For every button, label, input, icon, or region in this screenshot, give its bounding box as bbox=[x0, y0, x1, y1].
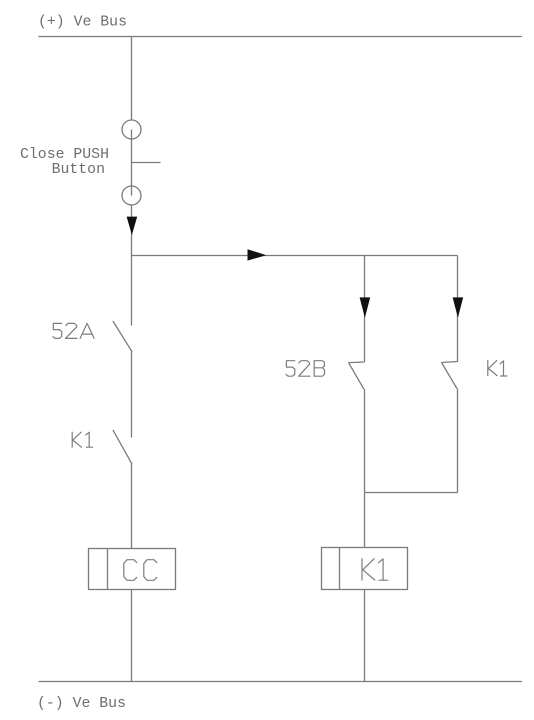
contact 52B tick bbox=[349, 361, 365, 364]
coil K1 box bbox=[322, 548, 408, 590]
wire between push button circles bbox=[131, 130, 133, 196]
wire from (+) bus down to push button bbox=[131, 37, 133, 121]
contact K1 right tick bbox=[442, 362, 458, 363]
label Close PUSH Button bbox=[20, 147, 109, 178]
wire 52B contact down through join to K1 coil bbox=[364, 389, 366, 548]
contact 52B blade bbox=[349, 363, 364, 390]
contact 52A blade bbox=[113, 321, 132, 352]
wire left branch to 52A contact bbox=[131, 256, 133, 326]
(+) bus wire bbox=[39, 36, 523, 38]
wire from push button to junction bbox=[131, 205, 133, 256]
join wire between branches bbox=[365, 492, 458, 494]
contact K1 right blade bbox=[442, 363, 457, 389]
push button lower circle bbox=[122, 186, 141, 205]
arrow down on 52B branch bbox=[360, 297, 371, 317]
wire K1 coil to (-) bus bbox=[364, 590, 366, 682]
label K1 coil bbox=[362, 559, 388, 581]
label (+) Ve Bus bbox=[38, 15, 127, 31]
label 52A bbox=[53, 323, 94, 338]
push button upper circle bbox=[122, 120, 141, 139]
branch wire x365 down from horizontal bbox=[364, 256, 366, 363]
contact K1 blade bbox=[113, 430, 132, 464]
wire K1 right contact down to join bbox=[457, 389, 459, 493]
branch wire x458 down from horizontal bbox=[457, 256, 459, 362]
label (-) Ve Bus bbox=[37, 696, 126, 712]
label 52B bbox=[286, 361, 325, 377]
coil CC box bbox=[89, 549, 176, 590]
arrow right on horizontal wire bbox=[248, 249, 267, 260]
label K1 left bbox=[72, 432, 92, 447]
wire K1 contact to CC coil bbox=[131, 464, 133, 549]
push button actuator tick bbox=[132, 162, 161, 164]
label K1 right bbox=[488, 361, 507, 376]
svg-text:Close PUSH: Close PUSH bbox=[20, 147, 109, 163]
wire CC coil to (-) bus bbox=[131, 590, 133, 682]
horizontal wire to branches bbox=[132, 255, 458, 257]
arrow down below push button bbox=[127, 217, 138, 235]
arrow down on K1 branch bbox=[453, 297, 464, 317]
svg-text:(-) Ve Bus: (-) Ve Bus bbox=[37, 696, 126, 712]
(-) bus wire bbox=[39, 681, 523, 683]
svg-text:(+) Ve Bus: (+) Ve Bus bbox=[38, 15, 127, 31]
wire 52A to K1 contact bbox=[131, 352, 133, 438]
label CC bbox=[124, 560, 157, 581]
svg-text:Button: Button bbox=[52, 162, 105, 178]
